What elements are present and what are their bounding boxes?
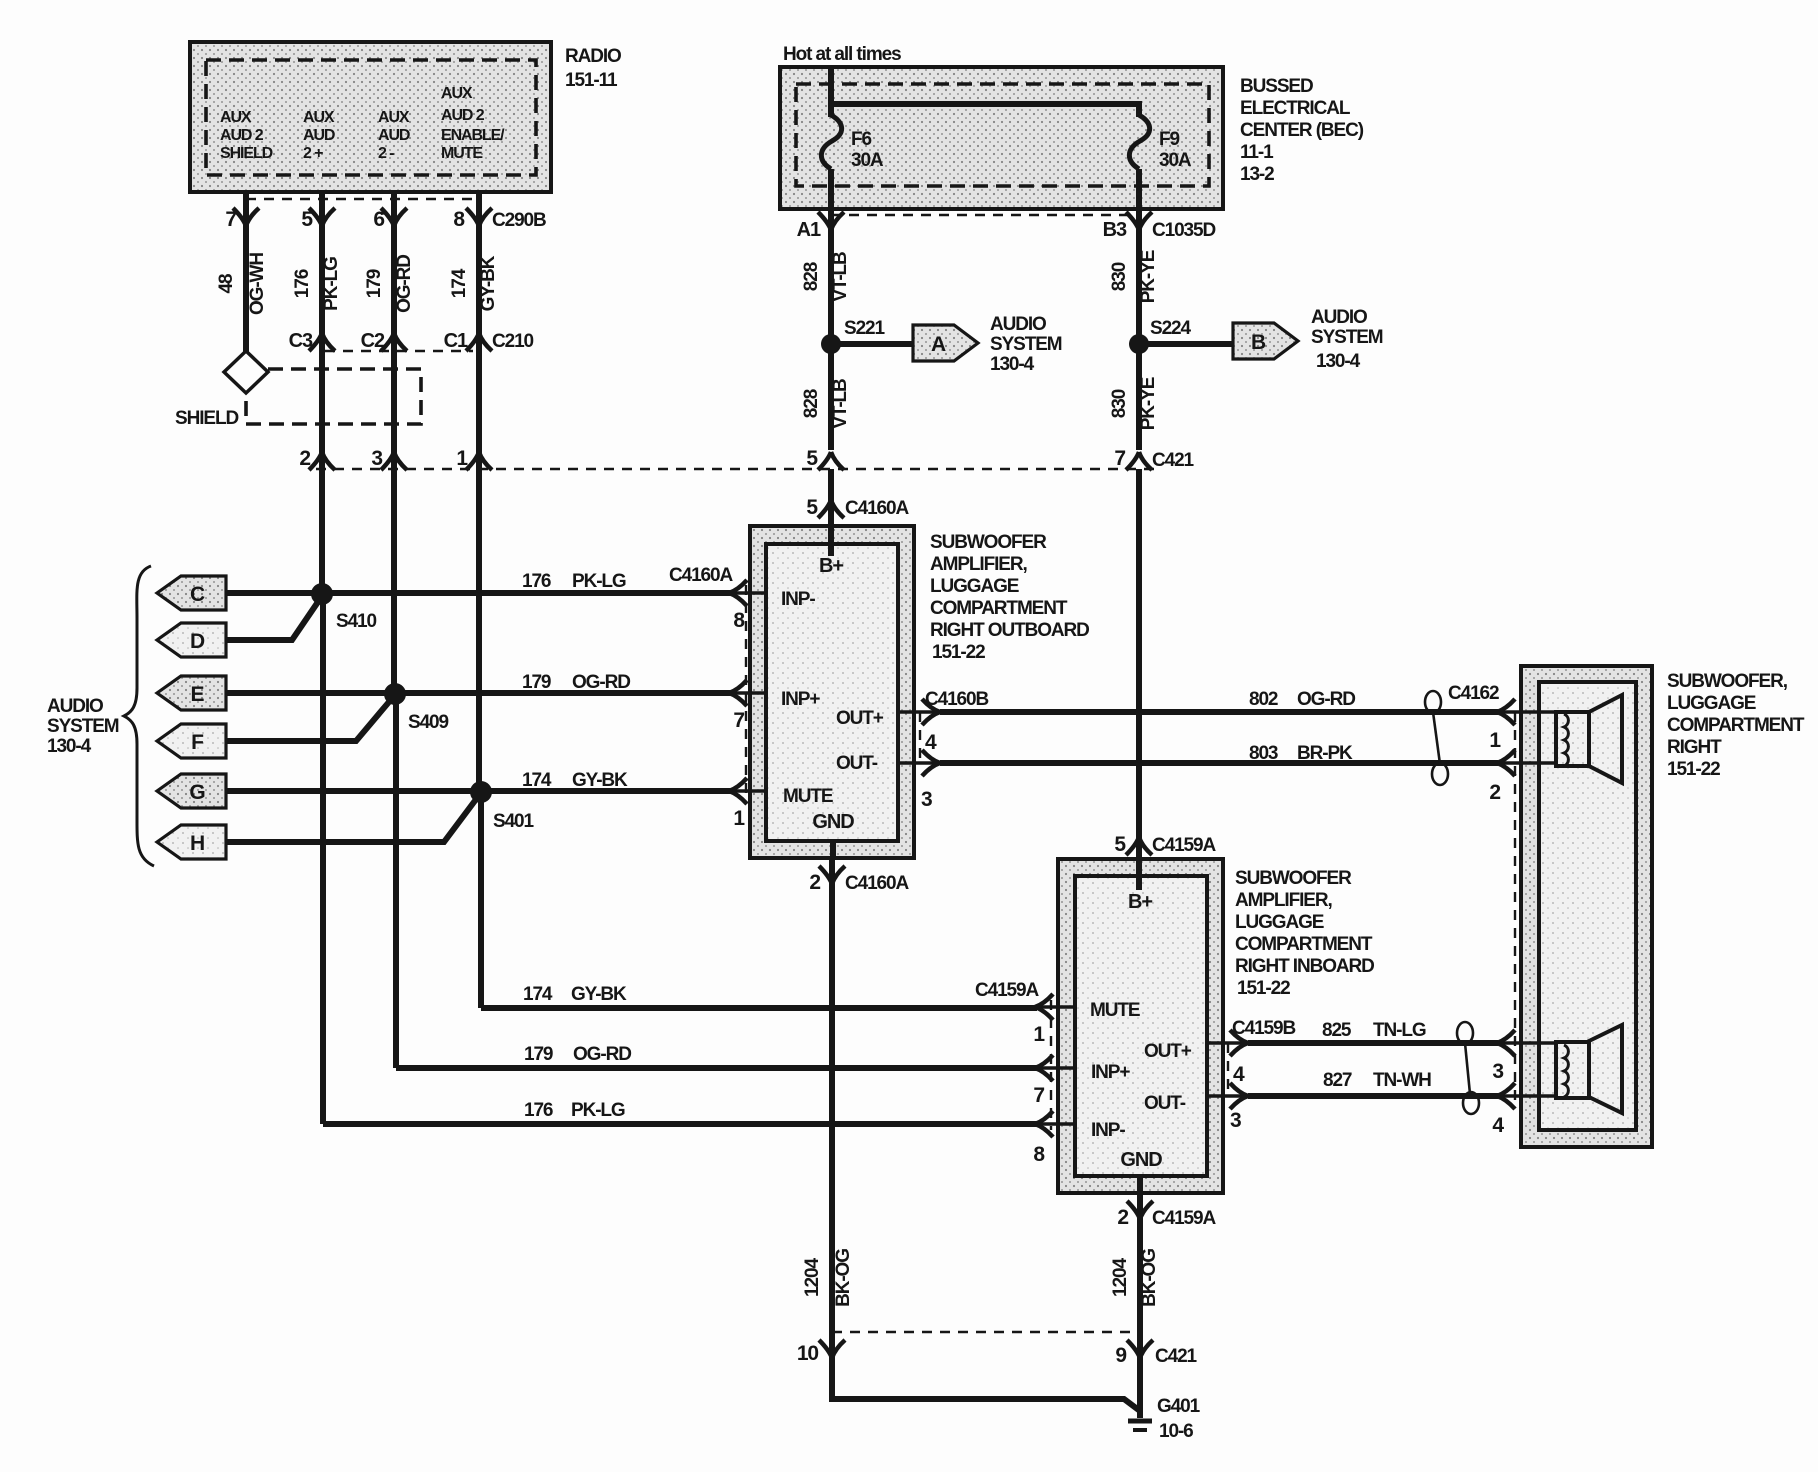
- amp1 pin 1 (MUTE): [729, 778, 766, 830]
- pin 6 of C290B: [373, 192, 407, 231]
- wire 179 OG-RD (to amp2 INP+): [396, 1044, 1037, 1068]
- svg-text:B3: B3: [1103, 219, 1127, 241]
- svg-text:10-6: 10-6: [1159, 1421, 1193, 1442]
- svg-text:COMPARTMENT: COMPARTMENT: [930, 598, 1068, 619]
- svg-text:AMPLIFIER,: AMPLIFIER,: [1235, 890, 1332, 911]
- fuse block BUSSED ELECTRICAL CENTER (BEC): [780, 67, 1223, 209]
- svg-text:C1035D: C1035D: [1152, 220, 1215, 241]
- svg-text:7: 7: [1033, 1084, 1044, 1107]
- pin C1 of C210: [444, 330, 534, 352]
- svg-text:BK-OG: BK-OG: [1139, 1249, 1160, 1307]
- svg-text:151-22: 151-22: [932, 642, 985, 663]
- svg-text:OG-RD: OG-RD: [573, 1044, 631, 1065]
- svg-text:30A: 30A: [851, 150, 884, 171]
- pin 5 of C421: [806, 447, 844, 470]
- wire PK-YE (C421 pin 7 down to amp2 B+ pin 5): [1136, 469, 1142, 859]
- svg-text:B: B: [1251, 331, 1266, 354]
- amp2 label OUT-: [1144, 1093, 1186, 1114]
- svg-text:INP-: INP-: [1091, 1120, 1125, 1141]
- pin B3 of C1035D: [1103, 209, 1216, 241]
- label AUDIO SYSTEM 130-4 (left): [47, 696, 119, 757]
- connector C421 dashed line: [316, 468, 1160, 470]
- amp2 pin 8 (INP-): [1033, 1111, 1075, 1166]
- svg-text:803: 803: [1249, 743, 1278, 764]
- speaker SP2 (bottom subwoofer driver): [1498, 1025, 1622, 1113]
- ground G401: [1128, 1396, 1201, 1442]
- svg-text:RIGHT INBOARD: RIGHT INBOARD: [1235, 956, 1374, 977]
- svg-text:48: 48: [216, 274, 237, 293]
- svg-text:4: 4: [925, 731, 937, 754]
- svg-text:SYSTEM: SYSTEM: [1311, 327, 1383, 348]
- svg-text:802: 802: [1249, 689, 1278, 710]
- svg-text:174: 174: [523, 984, 553, 1005]
- label AUDIO SYSTEM 130-4 (A): [990, 314, 1062, 375]
- svg-text:3: 3: [1230, 1109, 1241, 1132]
- svg-text:3: 3: [921, 788, 932, 811]
- svg-text:OUT-: OUT-: [1144, 1093, 1186, 1114]
- svg-text:PK-LG: PK-LG: [572, 571, 626, 592]
- svg-text:C: C: [190, 583, 205, 606]
- svg-text:Hot at all times: Hot at all times: [783, 44, 901, 65]
- svg-text:ENABLE/: ENABLE/: [441, 127, 505, 144]
- label AUDIO SYSTEM 130-4 (B): [1311, 307, 1383, 372]
- svg-text:SUBWOOFER,: SUBWOOFER,: [1667, 671, 1788, 692]
- splice S221: [821, 318, 886, 354]
- brace grouping audio system connectors: [124, 566, 154, 866]
- svg-text:8: 8: [1033, 1143, 1045, 1166]
- wire 174 GY-BK (to amp2 MUTE): [481, 984, 1037, 1008]
- svg-text:C3: C3: [289, 330, 313, 352]
- svg-text:1: 1: [456, 447, 468, 470]
- svg-text:GY-BK: GY-BK: [572, 770, 628, 791]
- svg-text:2: 2: [1489, 781, 1500, 804]
- svg-text:F: F: [191, 731, 204, 754]
- off-page connector C: [157, 576, 226, 610]
- wire 828 VT-LB (fuse F6 to splice S221): [801, 228, 851, 450]
- svg-text:5: 5: [806, 447, 818, 470]
- svg-text:5: 5: [806, 496, 818, 519]
- component label SUBWOOFER LUGGAGE COMPARTMENT RIGHT 151-22: [1667, 671, 1805, 780]
- amp1 internal GND lead: [830, 841, 836, 858]
- svg-text:INP-: INP-: [781, 589, 815, 610]
- svg-text:GY-BK: GY-BK: [478, 255, 499, 311]
- svg-text:151-22: 151-22: [1237, 978, 1290, 999]
- svg-text:BR-PK: BR-PK: [1297, 743, 1353, 764]
- svg-text:C290B: C290B: [492, 210, 546, 231]
- connector C290B dashed line: [246, 198, 479, 200]
- svg-text:8: 8: [733, 609, 745, 632]
- svg-text:151-11: 151-11: [565, 70, 618, 91]
- component label RADIO 151-11: [565, 46, 621, 91]
- splice S401: [470, 781, 535, 832]
- svg-text:COMPARTMENT: COMPARTMENT: [1667, 715, 1805, 736]
- wire 48 OG-WH (radio pin 7 to shield): [216, 222, 268, 352]
- subwoofer pin 3: [1492, 1030, 1515, 1083]
- pin 1 of C421: [456, 447, 492, 470]
- shield dashed box: [246, 369, 421, 424]
- svg-text:OUT+: OUT+: [1144, 1041, 1192, 1062]
- wire S221 to connector A: [831, 341, 914, 347]
- off-page connector E: [157, 676, 226, 710]
- amplifier U1 SUBWOOFER AMPLIFIER LUGGAGE COMPARTMENT RIGHT OUTBOARD: [750, 526, 914, 858]
- svg-text:C4160A: C4160A: [845, 873, 909, 894]
- wire 176 PK-LG (connector C through S410 to amp1 INP-): [226, 565, 733, 593]
- svg-text:F6: F6: [851, 129, 872, 150]
- svg-text:H: H: [190, 832, 204, 855]
- wire pin10 to ground G401: [832, 1396, 1140, 1411]
- svg-text:PK-LG: PK-LG: [571, 1100, 625, 1121]
- wire from connector F to splice S409: [226, 696, 394, 741]
- subwoofer pin 2: [1489, 750, 1515, 804]
- wire 830 PK-YE (fuse F9 to splice S224): [1109, 228, 1159, 450]
- svg-text:MUTE: MUTE: [1090, 1000, 1140, 1021]
- svg-text:RIGHT OUTBOARD: RIGHT OUTBOARD: [930, 620, 1089, 641]
- svg-text:7: 7: [1114, 447, 1125, 470]
- svg-text:S409: S409: [408, 712, 449, 733]
- connector C4162 dashed line: [1514, 712, 1516, 1100]
- svg-text:7: 7: [225, 208, 236, 231]
- svg-text:AUX: AUX: [441, 85, 473, 102]
- svg-text:OG-RD: OG-RD: [572, 672, 630, 693]
- pin 8 of C290B: [453, 192, 546, 231]
- amp1 internal B+ lead: [819, 526, 843, 577]
- wire 828 VT-LB (S221 to C421 pin 5): [801, 379, 851, 429]
- wire 825 TN-LG (amp2 OUT+ to subwoofer pin 3): [1248, 1020, 1498, 1043]
- svg-text:179: 179: [524, 1044, 553, 1065]
- svg-text:OUT-: OUT-: [836, 753, 878, 774]
- pin label AUX AUD 2+: [303, 109, 335, 162]
- wire 179 OG-RD (radio pin 6 down): [364, 192, 415, 1068]
- svg-text:AUD 2: AUD 2: [441, 107, 485, 124]
- pin A1 of C1035D: [797, 209, 844, 241]
- svg-text:SUBWOOFER: SUBWOOFER: [930, 532, 1047, 553]
- svg-text:AUX: AUX: [303, 109, 335, 126]
- svg-text:828: 828: [801, 262, 822, 291]
- svg-text:828: 828: [801, 389, 822, 418]
- svg-text:2 +: 2 +: [303, 145, 323, 162]
- amp1 label OUT+: [836, 708, 884, 729]
- amp1 label GND: [812, 811, 854, 833]
- svg-text:B+: B+: [819, 555, 843, 577]
- svg-text:30A: 30A: [1159, 150, 1192, 171]
- svg-text:174: 174: [522, 770, 552, 791]
- splice S409: [384, 683, 449, 733]
- svg-text:GND: GND: [812, 811, 854, 833]
- svg-text:830: 830: [1109, 389, 1130, 418]
- wire pin9 to ground G401: [1137, 1336, 1143, 1418]
- svg-text:AMPLIFIER,: AMPLIFIER,: [930, 554, 1027, 575]
- off-page connector F: [157, 724, 226, 758]
- svg-text:B+: B+: [1128, 891, 1152, 913]
- pin label AUX AUD 2 SHIELD: [220, 109, 273, 162]
- label SHIELD: [175, 408, 238, 429]
- wire 1204 BK-OG (amp2 GND down): [1110, 1219, 1160, 1340]
- svg-text:13-2: 13-2: [1240, 164, 1274, 185]
- amp1 pin 3 (OUT-): [898, 750, 940, 811]
- svg-text:179: 179: [522, 672, 551, 693]
- svg-text:S224: S224: [1150, 318, 1192, 339]
- svg-text:LUGGAGE: LUGGAGE: [930, 576, 1019, 597]
- svg-text:C4162: C4162: [1448, 683, 1499, 704]
- wire 176 PK-LG (radio pin 5 down): [292, 192, 342, 1124]
- amp1 pin 7 (INP+): [729, 680, 766, 732]
- off-page connector A (AUDIO SYSTEM 130-4): [913, 325, 978, 361]
- svg-text:MUTE: MUTE: [783, 786, 833, 807]
- svg-text:S221: S221: [844, 318, 886, 339]
- svg-text:1: 1: [733, 807, 745, 830]
- svg-text:AUDIO: AUDIO: [47, 696, 103, 717]
- connector C4160B dashed line at amp1 right: [919, 712, 921, 763]
- svg-text:151-22: 151-22: [1667, 759, 1720, 780]
- wire 803 BR-PK (amp1 OUT- to subwoofer pin 2): [940, 743, 1498, 764]
- svg-text:C421: C421: [1152, 450, 1195, 471]
- svg-text:11-1: 11-1: [1240, 142, 1274, 163]
- svg-text:SYSTEM: SYSTEM: [47, 716, 119, 737]
- svg-text:1: 1: [1489, 729, 1501, 752]
- amp1 label MUTE: [783, 786, 833, 807]
- svg-text:GND: GND: [1120, 1149, 1162, 1171]
- svg-text:130-4: 130-4: [1316, 351, 1361, 372]
- pin 5 of C4159A: [1114, 833, 1216, 856]
- connector block RADIO (151-11): [190, 42, 551, 192]
- pin 10 of C421: [797, 1340, 845, 1365]
- svg-text:A: A: [931, 333, 946, 356]
- splice S410: [311, 583, 377, 632]
- svg-text:AUDIO: AUDIO: [1311, 307, 1367, 328]
- svg-text:GY-BK: GY-BK: [571, 984, 627, 1005]
- svg-text:130-4: 130-4: [990, 354, 1035, 375]
- pin 2 of C4159A (amp2 GND): [1117, 1193, 1216, 1229]
- svg-text:2: 2: [809, 871, 820, 894]
- pin 5 of C290B: [301, 192, 335, 231]
- wire 827 TN-WH (amp2 OUT- to subwoofer pin 4): [1248, 1070, 1498, 1096]
- svg-text:827: 827: [1323, 1070, 1352, 1091]
- svg-text:OG-RD: OG-RD: [1297, 689, 1355, 710]
- svg-text:176: 176: [522, 571, 551, 592]
- wire 802 OG-RD (amp1 OUT+ to subwoofer pin 1): [940, 689, 1498, 712]
- svg-text:BUSSED: BUSSED: [1240, 76, 1313, 97]
- svg-text:3: 3: [371, 447, 382, 470]
- svg-text:INP+: INP+: [1091, 1062, 1130, 1083]
- connector C4159B dashed line at amp2 right: [1227, 1043, 1229, 1096]
- svg-text:4: 4: [1492, 1114, 1504, 1137]
- svg-text:176: 176: [292, 269, 313, 298]
- subwoofer pin 4: [1492, 1083, 1515, 1137]
- amp2 internal GND lead: [1137, 1176, 1143, 1193]
- svg-text:9: 9: [1115, 1344, 1126, 1367]
- svg-text:SHIELD: SHIELD: [175, 408, 238, 429]
- component label SUBWOOFER AMPLIFIER LUGGAGE COMPARTMENT RIGHT OUTBOARD 151-22: [930, 532, 1089, 663]
- speaker SP1 (top subwoofer driver): [1498, 695, 1622, 783]
- amp2 label INP-: [1091, 1120, 1125, 1141]
- svg-text:SUBWOOFER: SUBWOOFER: [1235, 868, 1352, 889]
- svg-text:COMPARTMENT: COMPARTMENT: [1235, 934, 1373, 955]
- amp1 label OUT-: [836, 753, 878, 774]
- amp2 label GND: [1120, 1149, 1162, 1171]
- component label SUBWOOFER AMPLIFIER LUGGAGE COMPARTMENT RIGHT INBOARD 151-22: [1235, 868, 1374, 999]
- amp1 pin 4 (OUT+): [898, 689, 988, 754]
- fuse F6 30A: [821, 115, 884, 209]
- svg-text:C421: C421: [1155, 1346, 1198, 1367]
- amp2 pin 1 (MUTE): [975, 980, 1075, 1046]
- svg-text:AUD: AUD: [378, 127, 410, 144]
- label Hot at all times: [783, 44, 901, 65]
- amp1 label INP-: [781, 589, 815, 610]
- svg-text:6: 6: [373, 208, 384, 231]
- svg-text:G: G: [189, 781, 205, 804]
- bus wire inside BEC: [831, 67, 1139, 117]
- svg-text:130-4: 130-4: [47, 736, 92, 757]
- svg-text:A1: A1: [797, 219, 821, 241]
- off-page connector H: [157, 825, 226, 859]
- connector C4160A dashed line at amp1 left: [745, 585, 747, 795]
- svg-text:BK-OG: BK-OG: [833, 1249, 854, 1307]
- svg-text:S410: S410: [336, 611, 377, 632]
- pin label AUX AUD 2-: [378, 109, 410, 162]
- pin 7 of C290B: [225, 192, 259, 231]
- svg-text:F9: F9: [1159, 129, 1180, 150]
- connector C421 lower dashed line: [832, 1331, 1140, 1333]
- svg-text:3: 3: [1492, 1060, 1503, 1083]
- svg-text:VT-LB: VT-LB: [830, 379, 851, 429]
- svg-text:CENTER (BEC): CENTER (BEC): [1240, 120, 1364, 141]
- pin label AUX AUD 2 ENABLE/MUTE: [441, 85, 505, 162]
- svg-text:C4159B: C4159B: [1232, 1018, 1295, 1039]
- pin 5 of C4160A: [806, 496, 909, 519]
- svg-text:1204: 1204: [1110, 1258, 1131, 1297]
- svg-text:TN-LG: TN-LG: [1373, 1020, 1426, 1041]
- fuse F9 30A: [1129, 115, 1192, 209]
- amp2 label MUTE: [1090, 1000, 1140, 1021]
- svg-text:830: 830: [1109, 262, 1130, 291]
- svg-text:D: D: [190, 630, 205, 653]
- off-page connector B (AUDIO SYSTEM 130-4): [1233, 323, 1298, 359]
- pin C2 of C210: [361, 330, 407, 352]
- svg-text:MUTE: MUTE: [441, 145, 483, 162]
- svg-text:TN-WH: TN-WH: [1373, 1070, 1431, 1091]
- svg-text:1204: 1204: [802, 1258, 823, 1297]
- amplifier U2 SUBWOOFER AMPLIFIER LUGGAGE COMPARTMENT RIGHT INBOARD: [1058, 859, 1223, 1193]
- svg-text:C4160A: C4160A: [669, 565, 733, 586]
- svg-text:ELECTRICAL: ELECTRICAL: [1240, 98, 1351, 119]
- wire VT-LB (C421 pin5 to amp C4160A pin5): [828, 469, 834, 526]
- wire 174 GY-BK (radio pin 8 down): [449, 192, 499, 1008]
- wire 179 OG-RD (connector E through S409 to amp1 INP+): [226, 672, 731, 693]
- svg-text:AUD 2: AUD 2: [220, 127, 264, 144]
- svg-text:PK-LG: PK-LG: [321, 257, 342, 311]
- svg-text:PK-YE: PK-YE: [1138, 250, 1159, 303]
- svg-text:VT-LB: VT-LB: [830, 252, 851, 302]
- svg-text:S401: S401: [493, 811, 535, 832]
- amp2 label OUT+: [1144, 1041, 1192, 1062]
- wire 1204 BK-OG (amp1 GND down): [802, 884, 854, 1399]
- svg-text:C4160A: C4160A: [845, 498, 909, 519]
- splice S224: [1129, 318, 1192, 354]
- svg-text:AUD: AUD: [303, 127, 335, 144]
- wire 176 PK-LG (to amp2 INP-): [323, 1100, 1037, 1124]
- svg-text:2: 2: [1117, 1206, 1128, 1229]
- svg-text:7: 7: [733, 709, 744, 732]
- pin 2 of C4160A (amp1 GND): [809, 858, 909, 894]
- amp1 label INP+: [781, 689, 820, 710]
- svg-text:4: 4: [1233, 1063, 1245, 1086]
- svg-text:OG-RD: OG-RD: [394, 255, 415, 313]
- speaker box SUBWOOFER LUGGAGE COMPARTMENT RIGHT: [1521, 666, 1652, 1147]
- svg-text:825: 825: [1322, 1020, 1352, 1041]
- wire from connector H to splice S401: [226, 794, 480, 842]
- connector C4159A dashed line at amp2 left: [1050, 1000, 1052, 1130]
- svg-text:2 -: 2 -: [378, 145, 394, 162]
- svg-text:INP+: INP+: [781, 689, 820, 710]
- svg-text:LUGGAGE: LUGGAGE: [1235, 912, 1324, 933]
- svg-text:C4159A: C4159A: [975, 980, 1039, 1001]
- wire 830 PK-YE (S224 to C421 pin 7): [1109, 377, 1159, 430]
- amp2 pin 7 (INP+): [1033, 1055, 1075, 1107]
- svg-text:5: 5: [301, 208, 313, 231]
- svg-text:8: 8: [453, 208, 465, 231]
- svg-text:C4160B: C4160B: [925, 689, 988, 710]
- svg-text:OG-WH: OG-WH: [247, 253, 268, 315]
- amp2 internal B+ lead: [1128, 859, 1152, 913]
- svg-text:C4159A: C4159A: [1152, 835, 1216, 856]
- svg-text:10: 10: [797, 1342, 819, 1365]
- svg-text:SHIELD: SHIELD: [220, 145, 273, 162]
- shield symbol (diamond): [224, 351, 268, 393]
- svg-text:2: 2: [299, 447, 310, 470]
- svg-text:174: 174: [449, 268, 470, 298]
- amp2 pin 4 (OUT+): [1207, 1018, 1295, 1086]
- svg-text:AUX: AUX: [378, 109, 410, 126]
- pin 2 of C421: [299, 447, 335, 470]
- pin C3 of C210: [289, 330, 335, 352]
- svg-text:C4159A: C4159A: [1152, 1208, 1216, 1229]
- svg-text:C1: C1: [444, 330, 468, 352]
- svg-text:176: 176: [524, 1100, 553, 1121]
- amp2 label INP+: [1091, 1062, 1130, 1083]
- svg-text:G401: G401: [1157, 1396, 1201, 1417]
- svg-text:179: 179: [364, 269, 385, 298]
- svg-text:AUDIO: AUDIO: [990, 314, 1046, 335]
- svg-text:C2: C2: [361, 330, 385, 352]
- wire S224 to connector B: [1139, 341, 1234, 347]
- connector C210 dashed line: [325, 350, 473, 352]
- svg-text:1: 1: [1033, 1023, 1045, 1046]
- svg-text:AUX: AUX: [220, 109, 252, 126]
- wire from connector D to splice S410: [226, 596, 322, 640]
- off-page connector D: [157, 623, 226, 657]
- subwoofer pin 1: [1448, 683, 1515, 752]
- svg-text:SYSTEM: SYSTEM: [990, 334, 1062, 355]
- component label BUSSED ELECTRICAL CENTER (BEC) 11-1 13-2: [1240, 76, 1364, 185]
- svg-text:RADIO: RADIO: [565, 46, 621, 67]
- svg-text:LUGGAGE: LUGGAGE: [1667, 693, 1756, 714]
- pin 3 of C421: [371, 447, 407, 470]
- pin 9 of C421: [1115, 1340, 1197, 1367]
- svg-text:RIGHT: RIGHT: [1667, 737, 1722, 758]
- svg-text:PK-YE: PK-YE: [1138, 377, 1159, 430]
- wire 174 GY-BK (connector G through S401 to amp1 MUTE): [226, 770, 731, 791]
- connector C1035D dashed line: [831, 214, 1139, 216]
- pin 7 of C421: [1114, 447, 1194, 471]
- twisted pair symbol C4159B wires: [1457, 1022, 1479, 1114]
- svg-text:5: 5: [1114, 833, 1126, 856]
- svg-text:E: E: [191, 683, 205, 706]
- twisted pair symbol C4162: [1425, 691, 1448, 785]
- svg-text:OUT+: OUT+: [836, 708, 884, 729]
- off-page connector G: [157, 774, 226, 808]
- amp1 pin 8 (INP-): [729, 580, 766, 632]
- svg-text:C210: C210: [492, 331, 534, 352]
